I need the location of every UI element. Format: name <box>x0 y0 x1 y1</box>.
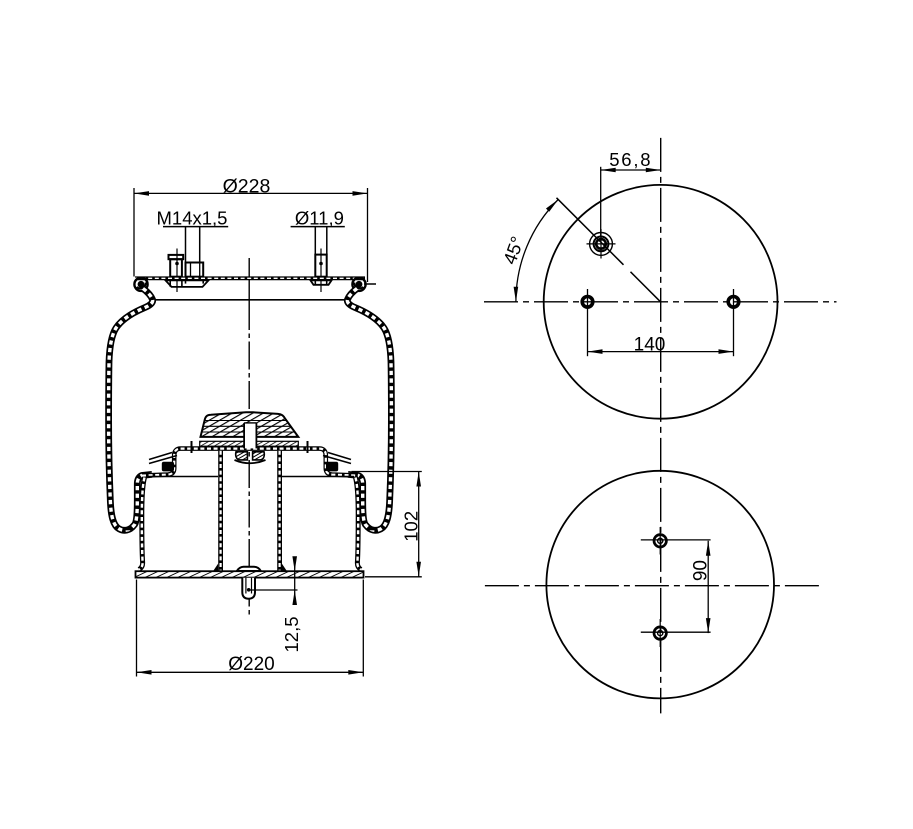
nut flange under right stud <box>311 280 332 284</box>
right stud side extensions <box>315 280 326 285</box>
dimension D228 <box>134 188 368 282</box>
hole on 45 (air inlet) <box>587 229 616 259</box>
dimension 56,8 <box>601 167 661 237</box>
stud side extensions <box>170 280 203 287</box>
bottom plate <box>136 571 364 577</box>
45 deg line <box>557 198 624 265</box>
dimension D220 <box>137 580 364 677</box>
svg-text:Ø11,9: Ø11,9 <box>295 208 344 229</box>
bead clamp lines right <box>323 456 351 464</box>
bolt head (in piston recess) <box>236 452 248 460</box>
svg-text:M14x1,5: M14x1,5 <box>157 208 228 229</box>
bumper course lines <box>201 421 295 433</box>
svg-text:Ø228: Ø228 <box>223 175 271 197</box>
svg-text:102: 102 <box>400 511 421 542</box>
central tube right wall <box>277 451 282 571</box>
svg-text:56,8: 56,8 <box>609 149 652 170</box>
piston top plate band (step + plateau) <box>142 449 358 476</box>
clamp ticks <box>191 441 193 453</box>
boss / air fitting <box>186 263 204 277</box>
stud M14 (left) <box>169 255 184 277</box>
svg-text:12,5: 12,5 <box>281 616 302 652</box>
tick right of plate <box>364 283 376 285</box>
stud D11.9 (right) <box>315 255 326 277</box>
bottom hole bottom <box>654 619 666 647</box>
piston outer wall right <box>356 478 362 570</box>
central tube left wall <box>218 451 223 571</box>
bolt washer dome on plate <box>237 567 261 571</box>
svg-text:90: 90 <box>691 560 712 581</box>
vertical centerline <box>660 138 662 714</box>
bottom hole top <box>654 527 666 555</box>
bottom circle <box>546 471 774 699</box>
tube feet <box>214 564 219 571</box>
bumper dome <box>201 412 299 437</box>
svg-text:140: 140 <box>634 335 666 356</box>
bottom bolt <box>242 578 255 599</box>
nut flange under left stud <box>166 280 209 287</box>
side hole right <box>728 289 739 356</box>
plate edge curl left <box>134 278 147 291</box>
side hole left <box>582 289 593 356</box>
angle arc 45 <box>516 200 558 302</box>
bead left <box>162 462 174 472</box>
top circle <box>544 185 778 419</box>
dimension 12,5 <box>249 557 298 596</box>
dimension 102 <box>352 472 422 577</box>
bellows wall left <box>109 289 153 531</box>
dimension 90 <box>641 540 711 633</box>
lobe bottom marks <box>124 527 133 530</box>
horizontal centerline top circle <box>484 301 837 303</box>
bellows wall right <box>347 289 391 531</box>
piston inner surface line <box>146 476 218 478</box>
bumper slot <box>244 423 256 449</box>
svg-text:Ø220: Ø220 <box>228 654 274 675</box>
centerline left view <box>248 258 250 618</box>
plate skirt <box>152 299 349 301</box>
piston outer wall left <box>139 478 145 570</box>
bead clamp lines left <box>149 456 177 464</box>
top plate band <box>135 276 365 280</box>
dimension 140 <box>588 351 734 353</box>
plate edge curl right <box>352 278 365 291</box>
bumper base band <box>200 441 299 446</box>
bead right <box>326 462 338 472</box>
horizontal centerline bottom circle <box>485 585 820 587</box>
